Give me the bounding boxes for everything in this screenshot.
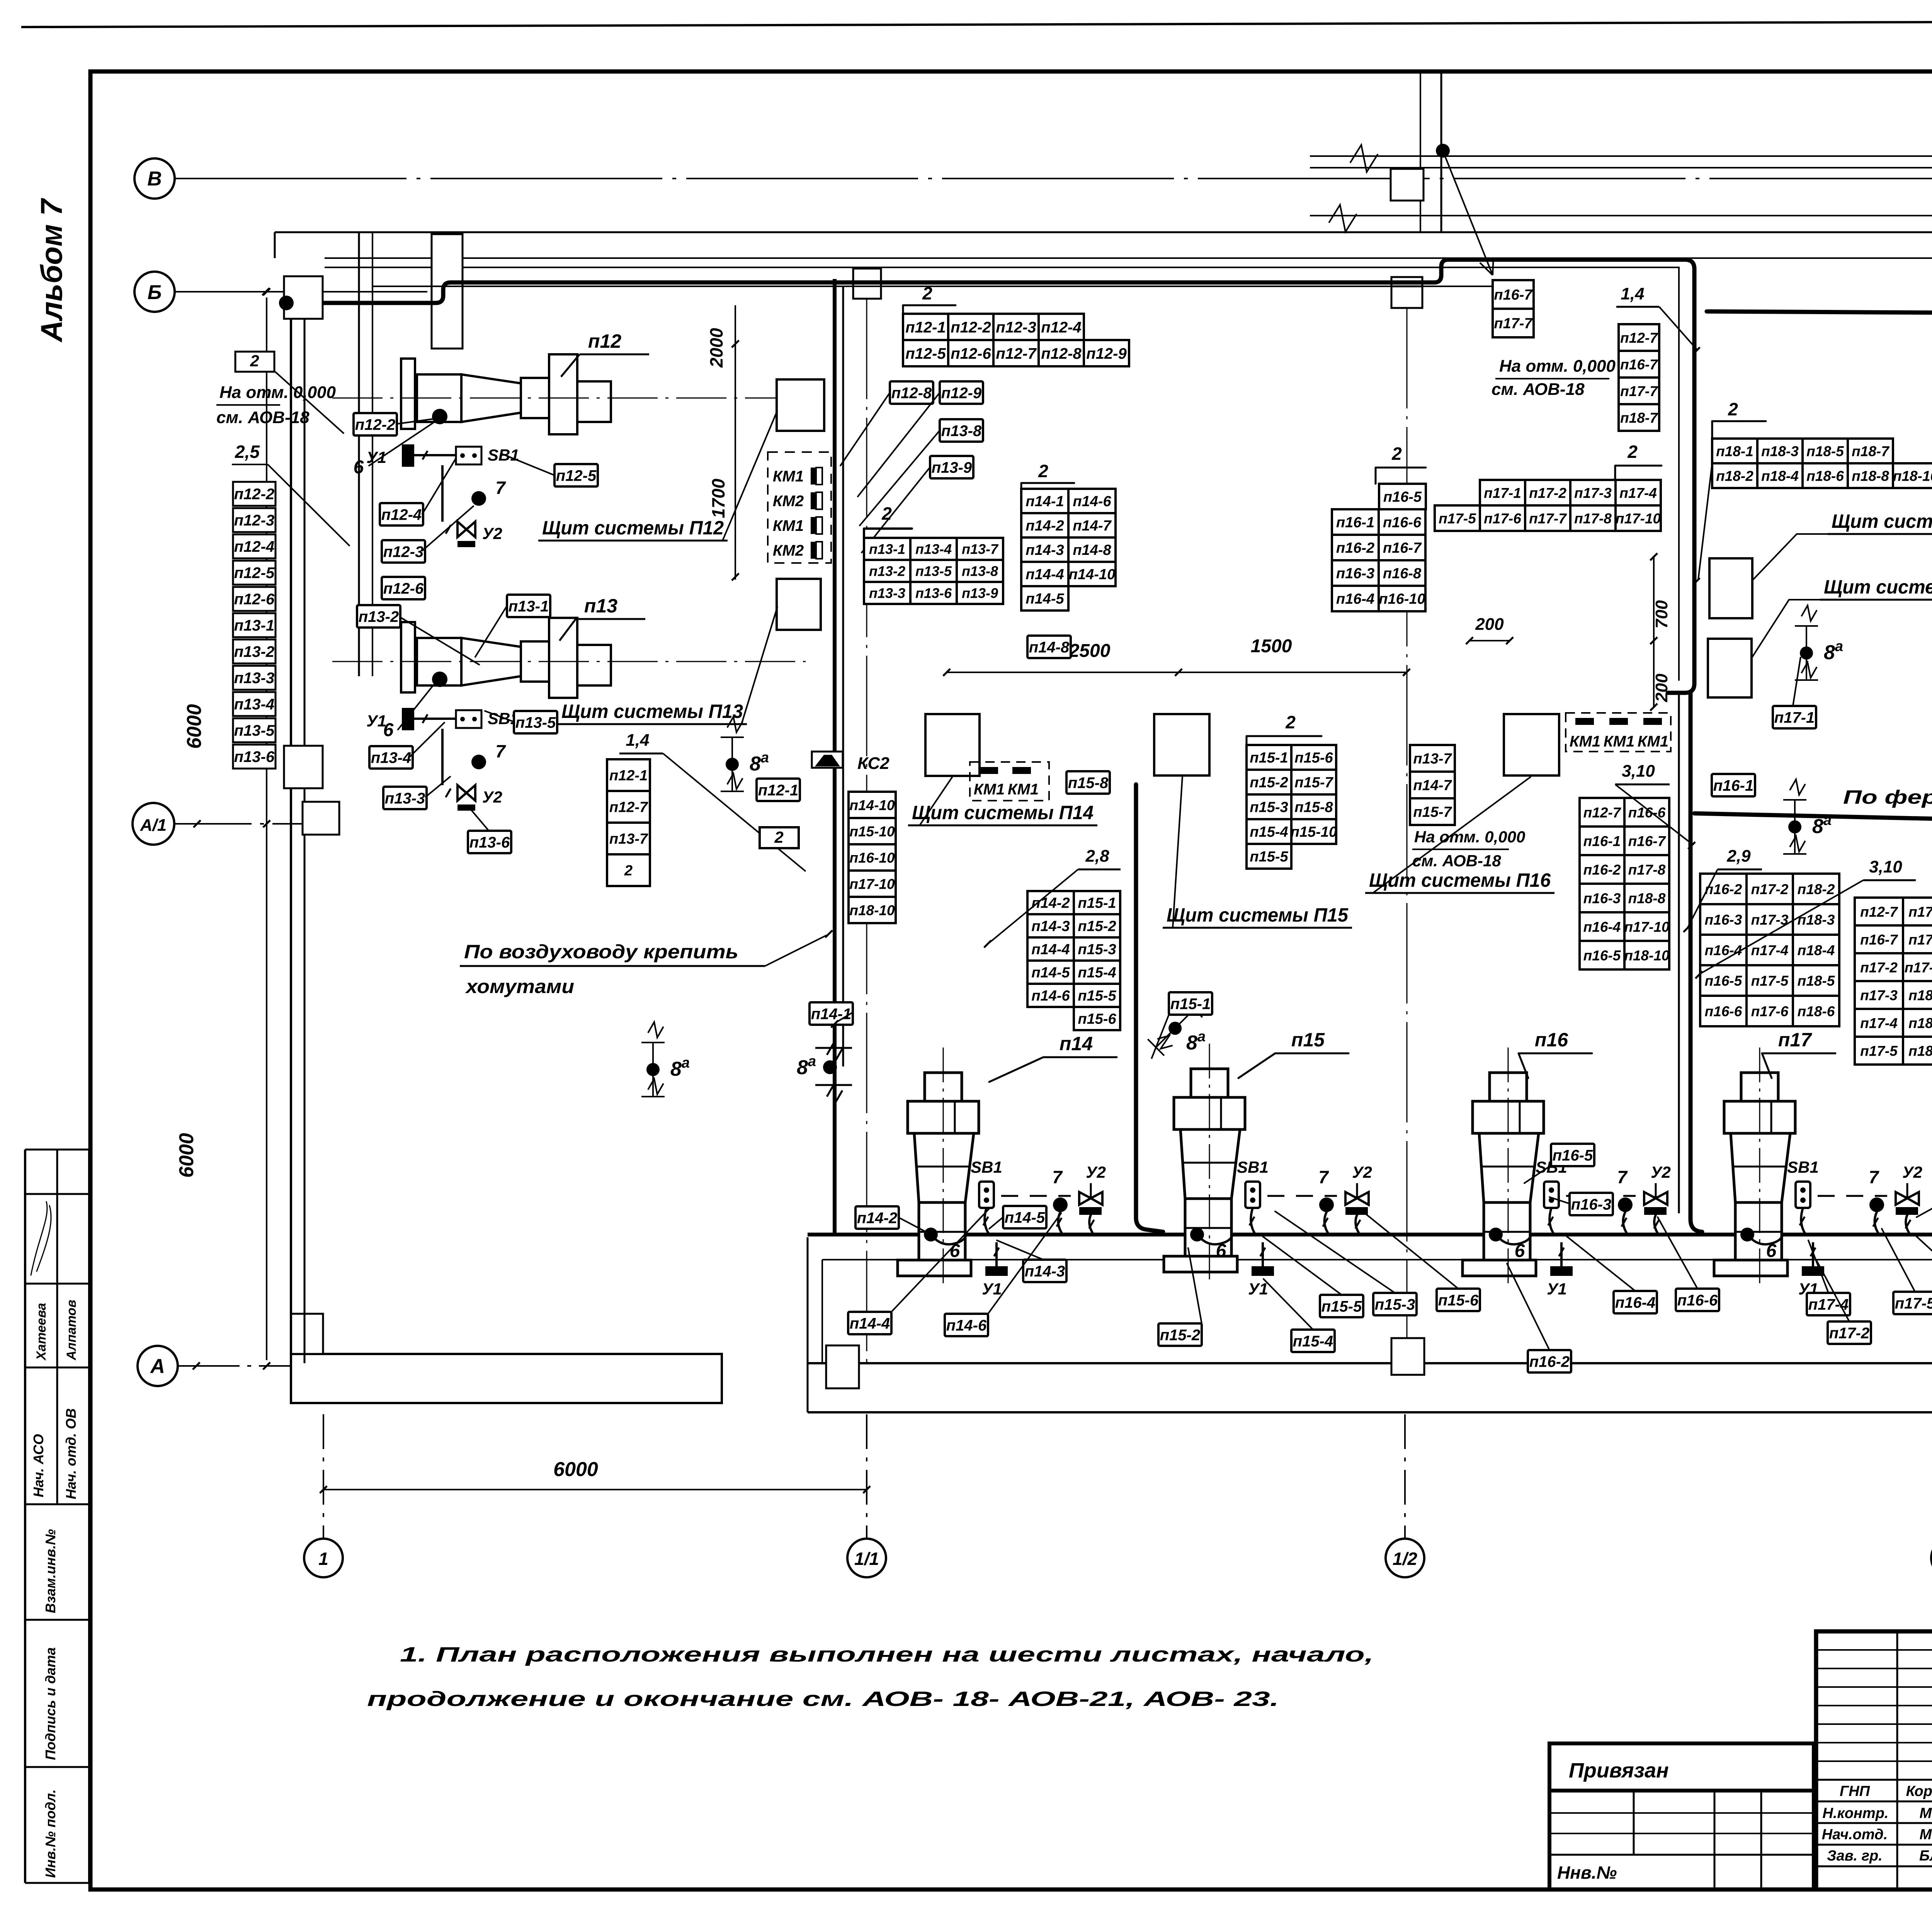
- svg-text:п13-8: п13-8: [941, 422, 982, 439]
- svg-text:Щит системы П17: Щит системы П17: [1824, 576, 1932, 598]
- thin companion of duct A: [373, 267, 1679, 680]
- svg-text:п16-4: п16-4: [1583, 919, 1621, 935]
- svg-text:п13-6: п13-6: [469, 834, 510, 851]
- svg-text:п13-2: п13-2: [234, 643, 275, 660]
- svg-text:3,10: 3,10: [1869, 857, 1902, 876]
- svg-text:п18-10: п18-10: [1893, 468, 1932, 484]
- leader from 2 box left: [275, 372, 344, 434]
- label box п16-3: [1570, 1193, 1613, 1215]
- svg-text:Щит системы П18: Щит системы П18: [1832, 510, 1932, 532]
- svg-text:п14-1: п14-1: [1026, 493, 1064, 510]
- label box 2 top left: [235, 352, 274, 372]
- svg-text:2000: 2000: [706, 328, 726, 368]
- svg-text:п17-2: п17-2: [1751, 881, 1789, 897]
- svg-text:п12-2: п12-2: [951, 319, 991, 336]
- svg-text:На отм. 0,000: На отм. 0,000: [219, 383, 336, 402]
- svg-text:п15-2: п15-2: [1250, 775, 1288, 791]
- svg-text:п13-7: п13-7: [609, 831, 648, 847]
- column on left wall mid: [284, 746, 323, 788]
- svg-text:п18-6: п18-6: [1798, 1003, 1835, 1019]
- svg-text:Нач.отд.: Нач.отд.: [1822, 1827, 1888, 1843]
- small square on riser: [1391, 169, 1423, 201]
- svg-text:п18-2: п18-2: [1716, 468, 1753, 484]
- svg-text:п16-5: п16-5: [1583, 947, 1621, 963]
- svg-text:Щит системы П16: Щит системы П16: [1369, 869, 1551, 891]
- svg-text:КМ1: КМ1: [1570, 733, 1600, 750]
- svg-text:п16-10: п16-10: [849, 850, 895, 866]
- svg-text:п13-7: п13-7: [1413, 751, 1452, 767]
- device line thick bottom: [808, 1233, 1932, 1236]
- duct junction dot П12 (redraw): [279, 296, 294, 310]
- svg-text:п12-3: п12-3: [996, 319, 1036, 336]
- column axis 1 bottom: [291, 1314, 323, 1354]
- label box п13-9: [930, 456, 973, 478]
- column axis 1/2 bottom: [1391, 1338, 1424, 1375]
- axis 1/2 thin vertical: [1406, 308, 1408, 1338]
- svg-text:п16-3: п16-3: [1571, 1196, 1612, 1213]
- svg-text:Нач. АСО: Нач. АСО: [31, 1434, 46, 1497]
- svg-text:6000: 6000: [553, 1458, 598, 1481]
- svg-text:п16-6: п16-6: [1705, 1003, 1742, 1019]
- wire dot П12: [432, 409, 447, 424]
- svg-text:п14-8: п14-8: [1029, 639, 1070, 656]
- У2 valve П17: [1896, 1192, 1919, 1205]
- svg-text:п17-5: п17-5: [1895, 1295, 1932, 1312]
- device row П12: [402, 444, 414, 467]
- title block left signature table: [1816, 1631, 1932, 1632]
- svg-text:п12-6: п12-6: [383, 580, 424, 597]
- svg-text:см. АОВ-18: см. АОВ-18: [1492, 380, 1585, 399]
- label box п14-1: [810, 1002, 853, 1025]
- svg-text:п16-7: п16-7: [1494, 287, 1533, 303]
- svg-text:п12-5: п12-5: [905, 345, 946, 362]
- svg-text:п13-3: п13-3: [234, 670, 275, 687]
- column п14-10..п18-10 (Т15): [849, 792, 896, 818]
- svg-text:п16-2: п16-2: [1529, 1353, 1570, 1370]
- svg-text:п13-1: п13-1: [234, 617, 275, 634]
- svg-text:п12-7: п12-7: [1583, 804, 1622, 820]
- thick duct A from П12 area along top: [286, 260, 1694, 693]
- left stamp column: [24, 1150, 26, 1883]
- label box п14-3: [1023, 1260, 1066, 1282]
- axis А/1 line: [174, 823, 333, 825]
- svg-text:6000: 6000: [183, 704, 206, 749]
- svg-text:п17-2: п17-2: [1860, 959, 1898, 975]
- svg-text:п15-1: п15-1: [1078, 895, 1116, 912]
- svg-text:п17-3: п17-3: [1751, 912, 1789, 928]
- svg-text:п18-4: п18-4: [1798, 942, 1835, 958]
- П17 riser thin companion: [1678, 693, 1680, 1213]
- label box п17-5: [1893, 1292, 1932, 1314]
- svg-text:2: 2: [1627, 442, 1638, 462]
- svg-text:п17-1: п17-1: [1774, 709, 1815, 726]
- svg-text:6: 6: [354, 457, 364, 478]
- upper wall line 2: [1310, 167, 1932, 168]
- leaders П17 boxes: [1808, 1188, 1932, 1321]
- svg-text:п12-9: п12-9: [1086, 345, 1127, 362]
- bottom axis circle 1/3: [1931, 1539, 1932, 1577]
- У1 actuator П14: [985, 1266, 1008, 1276]
- svg-text:п18-8: п18-8: [1628, 890, 1666, 906]
- svg-text:2: 2: [774, 828, 783, 846]
- svg-text:А: А: [150, 1355, 165, 1378]
- column lower half axis 1/2: [1391, 286, 1422, 308]
- svg-text:п12-6: п12-6: [234, 591, 275, 608]
- svg-text:Привязан: Привязан: [1569, 1759, 1669, 1782]
- leader from п18 table to riser: [1698, 463, 1712, 580]
- КМ group П16: [1566, 713, 1671, 752]
- svg-text:п15-6: п15-6: [1438, 1292, 1479, 1309]
- label box п16-4: [1614, 1291, 1657, 1313]
- svg-text:п14-2: п14-2: [1026, 518, 1064, 534]
- label box п15-2: [1158, 1323, 1202, 1346]
- svg-text:п13-9: п13-9: [932, 459, 972, 476]
- label box п15-1: [1169, 992, 1212, 1015]
- svg-text:п16-6: п16-6: [1628, 804, 1666, 820]
- svg-text:п16-8: п16-8: [1383, 566, 1422, 582]
- svg-text:6: 6: [1515, 1241, 1525, 1261]
- svg-text:7: 7: [495, 478, 506, 498]
- КМ group П14: [970, 762, 1049, 801]
- label box п15-8: [1066, 771, 1110, 794]
- svg-text:п17-7: п17-7: [1494, 316, 1533, 332]
- svg-text:п17-3: п17-3: [1860, 987, 1898, 1003]
- svg-text:п12-1: п12-1: [905, 319, 946, 336]
- svg-text:п18-1: п18-1: [1908, 987, 1932, 1003]
- svg-text:п13-6: п13-6: [234, 748, 275, 765]
- svg-text:п15-1: п15-1: [1250, 750, 1288, 766]
- axis 1/1 thin vertical: [866, 299, 867, 1364]
- svg-text:п12-5: п12-5: [234, 565, 275, 582]
- svg-text:п14-3: п14-3: [1025, 1263, 1065, 1280]
- П12/П13 riser pair on left: [358, 232, 360, 676]
- svg-text:п18-7: п18-7: [1620, 410, 1658, 426]
- svg-text:Коростелев: Коростелев: [1906, 1783, 1932, 1799]
- label box п15-6: [1437, 1289, 1480, 1311]
- mark 8а П17 area: [1783, 779, 1806, 854]
- svg-text:КМ2: КМ2: [773, 493, 804, 510]
- svg-text:п14-4: п14-4: [1031, 942, 1070, 958]
- axis 1 vertical dash line: [323, 1414, 324, 1539]
- svg-text:2: 2: [1391, 444, 1402, 464]
- svg-text:п16-4: п16-4: [1615, 1294, 1656, 1311]
- У1 actuator П15: [1252, 1266, 1274, 1276]
- svg-text:п12-7: п12-7: [1620, 330, 1658, 346]
- label box п12-4: [380, 503, 423, 526]
- svg-text:200: 200: [1652, 673, 1671, 702]
- svg-text:п15-4: п15-4: [1078, 965, 1116, 981]
- svg-text:У1: У1: [366, 448, 386, 466]
- svg-text:У1: У1: [1547, 1280, 1567, 1298]
- svg-text:п16-3: п16-3: [1336, 566, 1374, 582]
- wires П14: [985, 1208, 989, 1234]
- wall end left: [274, 232, 276, 258]
- svg-text:п14-6: п14-6: [1073, 493, 1111, 510]
- svg-text:п17-3: п17-3: [1574, 485, 1612, 501]
- break mark on wall L3: [1329, 205, 1356, 232]
- svg-text:КС2: КС2: [857, 754, 889, 773]
- svg-text:п18-3: п18-3: [1908, 1043, 1932, 1059]
- svg-text:п16-6: п16-6: [1677, 1292, 1718, 1309]
- svg-text:Нач. отд. ОВ: Нач. отд. ОВ: [63, 1408, 79, 1499]
- svg-text:п17-8: п17-8: [1908, 932, 1932, 947]
- svg-text:2500: 2500: [1069, 641, 1111, 661]
- junction dot П17: [1740, 1228, 1754, 1242]
- column п13-7/п14-7/п15-7 (Т5): [1410, 745, 1455, 772]
- bottom dimension line left 6000: [323, 1489, 867, 1490]
- svg-text:По воздуховоду крепить: По воздуховоду крепить: [464, 941, 738, 963]
- svg-text:п16-1: п16-1: [1336, 515, 1374, 531]
- svg-text:продолжение и окончание с: продолжение и окончание см. АОВ- 18- АОВ…: [367, 1687, 1279, 1711]
- svg-text:п17: п17: [1778, 1029, 1812, 1051]
- svg-text:п17-6: п17-6: [1908, 904, 1932, 920]
- bottom wall band: [808, 1362, 1932, 1364]
- svg-text:п12-8: п12-8: [891, 384, 932, 401]
- svg-text:КМ1: КМ1: [974, 781, 1005, 798]
- svg-text:п12-2: п12-2: [234, 486, 275, 503]
- axis Б line: [175, 291, 450, 293]
- label box п13-2: [357, 605, 400, 628]
- svg-text:п14-6: п14-6: [946, 1317, 987, 1334]
- fan unit П16: [1490, 1073, 1527, 1101]
- label box п17-2: [1828, 1321, 1871, 1344]
- svg-text:п13-4: п13-4: [371, 749, 412, 766]
- label box п14-6: [945, 1314, 988, 1336]
- label box п13-8: [940, 419, 983, 442]
- svg-text:п17-7: п17-7: [1529, 510, 1567, 526]
- device line thin bottom: [822, 1259, 1932, 1260]
- svg-text:п14-5: п14-5: [1031, 965, 1070, 981]
- bottom axis circle 1/1: [847, 1539, 886, 1577]
- label box п16-5: [1551, 1144, 1594, 1166]
- svg-text:В: В: [147, 168, 162, 190]
- svg-text:2,8: 2,8: [1085, 847, 1109, 866]
- svg-text:SB1: SB1: [1787, 1158, 1819, 1176]
- svg-text:1500: 1500: [1251, 636, 1292, 656]
- mark 8а near КС2: [721, 717, 744, 791]
- leaders П15 boxes: [1188, 1209, 1458, 1330]
- svg-text:7: 7: [495, 741, 506, 761]
- column at axis А/1 wall: [303, 802, 339, 835]
- wall line L4: [325, 257, 1932, 259]
- svg-text:2,5: 2,5: [235, 442, 260, 462]
- junction dot П16: [1489, 1228, 1503, 1242]
- leader 1,4 to duct: [663, 753, 806, 871]
- svg-text:п13-4: п13-4: [915, 541, 952, 557]
- svg-text:п18-6: п18-6: [1806, 468, 1844, 484]
- svg-text:п16-1: п16-1: [1713, 777, 1754, 794]
- svg-text:п17-10: п17-10: [1616, 510, 1661, 526]
- label box п13-6: [468, 831, 511, 853]
- svg-text:п16-3: п16-3: [1705, 912, 1742, 928]
- svg-text:п18-1: п18-1: [1716, 443, 1753, 459]
- thick duct C По ферме to П19: [1694, 813, 1932, 831]
- У2 valve П12: [457, 522, 475, 537]
- svg-text:SB1: SB1: [971, 1158, 1002, 1176]
- break mark on upper wall: [1350, 145, 1378, 172]
- П15 supply riser thick vertical: [1136, 784, 1163, 1232]
- svg-text:п16-5: п16-5: [1705, 973, 1743, 989]
- left separate wall rectangle axis 1 to 1/1: [291, 1354, 722, 1403]
- svg-text:п13-4: п13-4: [234, 696, 275, 713]
- У2 valve П15: [1345, 1192, 1369, 1205]
- axis А circle: [138, 1346, 178, 1386]
- label box п15-4: [1291, 1330, 1335, 1352]
- svg-text:Щит системы П15: Щит системы П15: [1167, 904, 1349, 926]
- svg-text:п18-4: п18-4: [1761, 468, 1799, 484]
- svg-text:п13-2: п13-2: [359, 608, 399, 625]
- svg-text:п17-2: п17-2: [1829, 1325, 1870, 1342]
- svg-text:Ннв.№: Ннв.№: [1557, 1862, 1617, 1883]
- column on left wall top: [284, 276, 323, 319]
- svg-text:п12-7: п12-7: [996, 345, 1037, 362]
- svg-text:п14-2: п14-2: [857, 1209, 898, 1226]
- svg-text:Щит системы П14: Щит системы П14: [912, 802, 1094, 823]
- dimension 200 horizontal: [1469, 640, 1510, 641]
- label box п15-3: [1373, 1293, 1417, 1315]
- wires П16: [1549, 1208, 1554, 1234]
- junction dot П14: [924, 1228, 938, 1242]
- label box п13-4: [369, 746, 413, 769]
- svg-text:п14-3: п14-3: [1026, 542, 1064, 558]
- svg-text:п18-2: п18-2: [1908, 1015, 1932, 1031]
- leader lines П12/П13 boxes: [397, 418, 554, 831]
- svg-text:п17-4: п17-4: [1619, 485, 1657, 501]
- svg-text:п13-5: п13-5: [915, 563, 952, 579]
- left vertical dimension line 6000s: [266, 298, 267, 1360]
- svg-text:КМ1: КМ1: [773, 468, 804, 485]
- svg-text:А/1: А/1: [140, 816, 167, 835]
- svg-text:п14: п14: [1060, 1033, 1093, 1054]
- svg-text:п15-4: п15-4: [1293, 1333, 1333, 1350]
- svg-text:п15-6: п15-6: [1078, 1011, 1116, 1027]
- duct A branch down to П17 device row: [1689, 693, 1693, 832]
- svg-text:п16-7: п16-7: [1620, 357, 1658, 372]
- wall line L2: [275, 231, 1932, 233]
- label box п12-1: [757, 779, 800, 801]
- svg-text:1,4: 1,4: [1621, 284, 1644, 303]
- svg-text:п16-2: п16-2: [1336, 540, 1374, 556]
- svg-text:п17-8: п17-8: [1574, 510, 1612, 526]
- svg-text:п15: п15: [1291, 1029, 1325, 1051]
- svg-text:п15-3: п15-3: [1250, 799, 1288, 816]
- column п16-7/п17-7 (Т14): [1493, 280, 1534, 309]
- label box п13-3: [383, 787, 427, 809]
- КМ group П12 (dashed): [768, 452, 831, 563]
- svg-text:п12: п12: [588, 330, 621, 352]
- mark 8а П15 rotated: [1148, 986, 1217, 1056]
- mark 8а П17 panel: [1795, 605, 1818, 680]
- label box п12-2: [354, 413, 397, 435]
- У2 valve П14: [1079, 1192, 1102, 1205]
- svg-text:У2: У2: [482, 524, 502, 543]
- svg-text:п18-8: п18-8: [1852, 468, 1889, 484]
- svg-text:п12-4: п12-4: [234, 538, 275, 555]
- duct junction dot П12: [279, 296, 294, 310]
- svg-text:Малахов: Малахов: [1920, 1827, 1932, 1843]
- svg-text:п15-1: п15-1: [1170, 995, 1211, 1012]
- label box п14-5: [1003, 1206, 1046, 1228]
- axis 1/2 vertical dash line: [1404, 1414, 1406, 1539]
- svg-text:п14-4: п14-4: [850, 1315, 890, 1332]
- svg-text:6000: 6000: [175, 1133, 198, 1178]
- svg-text:По ферме: По ферме: [1843, 786, 1932, 808]
- axis 1/1 vertical dash line: [866, 1414, 867, 1539]
- label box п16-1: [1712, 774, 1755, 796]
- svg-text:п16-5: п16-5: [1383, 489, 1422, 505]
- label box п13-5: [514, 711, 557, 733]
- riser pair at axis 1/2 top: [1420, 71, 1421, 232]
- svg-text:2: 2: [1728, 399, 1738, 419]
- wires П17: [1801, 1208, 1805, 1234]
- label box п14-2: [855, 1206, 899, 1229]
- fan unit П15: [1191, 1069, 1228, 1097]
- label box п17-4: [1807, 1293, 1850, 1315]
- svg-text:2,9: 2,9: [1726, 847, 1751, 866]
- svg-text:п15-8: п15-8: [1068, 774, 1109, 791]
- left building edge double vertical: [290, 278, 292, 1363]
- svg-text:КМ1: КМ1: [773, 517, 804, 534]
- svg-text:п17-6: п17-6: [1484, 510, 1521, 526]
- svg-text:п16-4: п16-4: [1705, 942, 1742, 958]
- svg-text:п17-4: п17-4: [1860, 1015, 1898, 1031]
- mark 8а П14 riser: [797, 1044, 852, 1101]
- У1 actuator П17: [1802, 1266, 1824, 1276]
- svg-text:6: 6: [1216, 1241, 1226, 1261]
- svg-text:п16-5: п16-5: [1553, 1147, 1593, 1164]
- svg-text:п16-4: п16-4: [1336, 591, 1374, 607]
- У1 actuator П16: [1550, 1266, 1573, 1276]
- svg-text:7: 7: [1052, 1167, 1063, 1187]
- svg-text:п13-1: п13-1: [869, 541, 905, 557]
- svg-text:У1: У1: [1248, 1280, 1268, 1298]
- КС2 junction: [812, 752, 843, 768]
- label box п12-6: [382, 577, 425, 599]
- У2 valve П16: [1644, 1192, 1667, 1205]
- svg-text:2: 2: [624, 863, 633, 879]
- svg-text:Блудова: Блудова: [1919, 1848, 1932, 1864]
- leaders П14 boxes: [891, 1209, 1061, 1314]
- wire dot П13: [432, 672, 447, 687]
- svg-text:У2: У2: [1902, 1163, 1922, 1181]
- axis B circle: [134, 158, 175, 199]
- label box п14-8: [1027, 636, 1071, 658]
- svg-text:п14-10: п14-10: [1069, 566, 1115, 583]
- axis B line: [175, 178, 1932, 179]
- left end of bottom wall: [807, 1237, 809, 1412]
- svg-text:п16: п16: [1535, 1029, 1568, 1051]
- svg-text:п12-7: п12-7: [609, 799, 648, 816]
- dot top riser: [1436, 144, 1450, 158]
- table п14/п15 pair (Т-pair): [1027, 891, 1074, 914]
- svg-text:6: 6: [383, 720, 394, 740]
- svg-text:1: 1: [318, 1549, 328, 1569]
- signature scribbles: [31, 1202, 51, 1275]
- svg-text:7: 7: [1318, 1167, 1329, 1187]
- title block outer: [1816, 1631, 1932, 1889]
- svg-text:п13-6: п13-6: [915, 585, 952, 601]
- svg-text:2: 2: [250, 352, 259, 370]
- svg-text:6: 6: [1766, 1241, 1777, 1261]
- left label stack п12-2..п13-6: [233, 482, 276, 506]
- column at axis 1/1 top: [853, 269, 881, 299]
- svg-text:п16-1: п16-1: [1583, 833, 1621, 849]
- svg-text:п18-3: п18-3: [1761, 443, 1799, 459]
- bottom axis circle 1/2: [1386, 1539, 1424, 1577]
- svg-text:п17-5: п17-5: [1751, 973, 1789, 989]
- svg-text:п16-2: п16-2: [1583, 862, 1621, 878]
- svg-text:п15-3: п15-3: [1078, 942, 1116, 958]
